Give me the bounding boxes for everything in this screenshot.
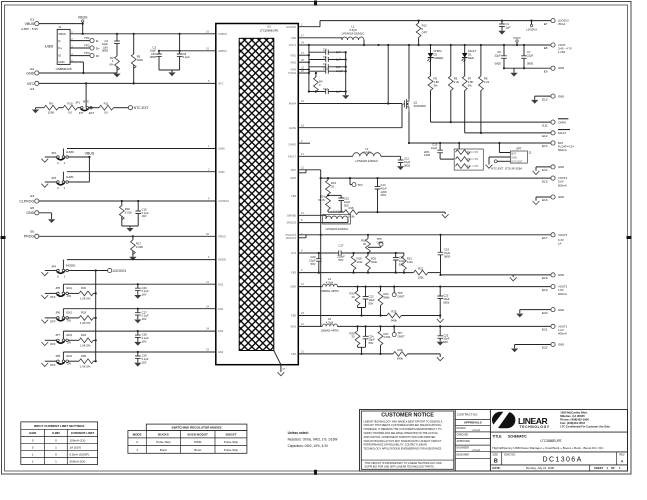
svg-text:D1: D1 [468, 52, 472, 56]
svg-text:4.7µH: 4.7µH [326, 320, 333, 324]
svg-text:PVBUS: PVBUS [218, 32, 227, 36]
svg-text:E17: E17 [542, 236, 548, 240]
svg-text:C4: C4 [323, 48, 327, 52]
svg-text:EN2: EN2 [218, 307, 224, 311]
svg-text:OFF: OFF [50, 295, 56, 299]
svg-text:EXT: EXT [89, 111, 95, 115]
svg-text:DC1306A: DC1306A [543, 457, 583, 464]
svg-text:NTC-EXT: NTC-EXT [491, 166, 503, 170]
svg-text:1.8K: 1.8K [434, 80, 440, 84]
svg-text:SWAB3: SWAB3 [287, 213, 297, 217]
svg-text:LPS4018-222MLC: LPS4018-222MLC [355, 159, 378, 163]
svg-text:R23: R23 [349, 292, 355, 296]
svg-text:E16: E16 [542, 198, 548, 202]
svg-text:R22: R22 [418, 267, 424, 271]
svg-text:1A (10X): 1A (10X) [70, 445, 82, 449]
svg-text:PVIN4: PVIN4 [289, 71, 297, 75]
svg-text:5%: 5% [110, 62, 115, 66]
svg-text:ILIM1: ILIM1 [218, 170, 225, 174]
svg-text:R17: R17 [136, 242, 142, 246]
svg-text:GND: GND [558, 308, 564, 312]
svg-text:VIN2: VIN2 [290, 60, 296, 64]
svg-text:LPS4018-332MLC: LPS4018-332MLC [342, 32, 365, 36]
svg-text:Burst: Burst [160, 448, 167, 452]
svg-text:CLPROG: CLPROG [19, 199, 34, 203]
svg-text:VOUT: VOUT [513, 36, 521, 40]
svg-text:OFF: OFF [50, 320, 56, 324]
svg-text:R21: R21 [407, 257, 413, 261]
svg-text:L3 2.2µH: L3 2.2µH [331, 209, 342, 213]
svg-text:CLPROG: CLPROG [218, 199, 229, 203]
svg-text:GATE: GATE [289, 126, 296, 130]
svg-text:E22: E22 [542, 346, 548, 350]
svg-text:CHRG: CHRG [288, 142, 296, 146]
svg-text:FB2: FB2 [291, 314, 296, 318]
svg-text:L1: L1 [351, 25, 355, 29]
svg-text:C17: C17 [338, 244, 344, 248]
svg-text:Pulse Skip: Pulse Skip [224, 440, 239, 444]
svg-text:R05: R05 [81, 354, 87, 358]
svg-text:E4: E4 [30, 194, 34, 198]
svg-text:LTC3586EUFE: LTC3586EUFE [540, 439, 561, 443]
svg-text:EN1: EN1 [218, 282, 224, 286]
svg-text:20%: 20% [424, 150, 430, 154]
svg-text:LTC Confidential-For Customer: LTC Confidential-For Customer Use Only [560, 425, 610, 429]
svg-text:JP3: JP3 [51, 176, 56, 180]
svg-text:600mA: 600mA [558, 183, 567, 187]
svg-text:C16: C16 [142, 207, 148, 211]
svg-text:GND: GND [558, 66, 564, 70]
svg-text:VIN4: VIN4 [290, 68, 296, 72]
svg-text:DRAWN: DRAWN [457, 427, 466, 430]
svg-text:THIS CIRCUIT IS PROPRIETARY TO: THIS CIRCUIT IS PROPRIETARY TO LINEAR TE… [365, 461, 442, 465]
svg-text:E12: E12 [542, 134, 548, 138]
svg-text:C11: C11 [323, 67, 328, 71]
svg-text:BAT: BAT [558, 141, 563, 145]
svg-text:BOOST: BOOST [226, 433, 237, 437]
svg-text:22µF: 22µF [494, 53, 501, 57]
svg-text:SW1: SW1 [290, 325, 296, 329]
svg-text:0805: 0805 [495, 62, 502, 66]
svg-text:L4: L4 [328, 277, 332, 281]
svg-text:220pF: 220pF [337, 255, 345, 259]
svg-text:1.2V: 1.2V [558, 328, 564, 332]
svg-text:1206: 1206 [381, 190, 388, 194]
svg-text:ILIM1: ILIM1 [66, 175, 74, 179]
svg-text:R03: R03 [81, 311, 87, 315]
svg-text:DIR: DIR [292, 36, 297, 40]
svg-text:EN3: EN3 [218, 329, 224, 333]
svg-text:R16: R16 [125, 207, 131, 211]
svg-text:E3: E3 [30, 87, 34, 91]
svg-text:OMIT: OMIT [377, 241, 384, 245]
svg-text:1.0K 5%: 1.0K 5% [80, 364, 91, 368]
svg-text:D+: D+ [96, 46, 100, 50]
svg-text:APPROVED: APPROVED [457, 440, 471, 443]
svg-text:3.3µH: 3.3µH [349, 28, 356, 32]
svg-text:PROG: PROG [24, 235, 35, 239]
svg-text:324k: 324k [371, 260, 378, 264]
svg-text:1008AS-4R7M: 1008AS-4R7M [320, 289, 339, 293]
svg-text:Q1: Q1 [414, 101, 418, 105]
svg-text:3.01K: 3.01K [125, 210, 132, 214]
svg-text:R29 1 5%: R29 1 5% [467, 150, 479, 154]
svg-text:E19: E19 [542, 288, 548, 292]
svg-text:R14: R14 [320, 195, 326, 199]
svg-text:BAT: BAT [291, 168, 296, 172]
svg-text:2.2k: 2.2k [484, 80, 490, 84]
svg-text:VBUS: VBUS [25, 22, 35, 26]
svg-text:VOUT: VOUT [289, 43, 297, 47]
svg-text:USBMINI-B: USBMINI-B [56, 67, 72, 71]
svg-text:100K: 100K [137, 58, 144, 62]
svg-text:400mA: 400mA [558, 292, 567, 296]
svg-text:E6: E6 [30, 229, 34, 233]
svg-text:CONTRACT NO: CONTRACT NO [457, 413, 478, 417]
svg-text:CIRCUIT BOARD LAYOUT MAY SIGNI: CIRCUIT BOARD LAYOUT MAY SIGNIFICANTLY A… [364, 439, 442, 443]
svg-text:EN1: EN1 [67, 286, 73, 290]
svg-text:Unless noted:: Unless noted: [288, 431, 309, 435]
svg-text:DESIGNER: DESIGNER [457, 453, 470, 456]
svg-text:E8: E8 [544, 46, 548, 50]
svg-text:E5: E5 [30, 206, 34, 210]
svg-text:3.4V - 4.7V: 3.4V - 4.7V [558, 47, 572, 51]
svg-text:NTC: NTC [83, 100, 90, 104]
svg-text:2.05k: 2.05k [384, 335, 391, 339]
svg-text:Resistors: Ohms, 0402, 1%, 1/1: Resistors: Ohms, 0402, 1%, 1/16W [288, 437, 338, 441]
svg-text:TECHNOLOGY APPLICATIONS ENGINE: TECHNOLOGY APPLICATIONS ENGINEERING FOR … [364, 447, 443, 451]
svg-text:FAULT: FAULT [468, 49, 477, 53]
svg-text:BUCK-BOOST: BUCK-BOOST [188, 433, 208, 437]
svg-text:GND: GND [558, 165, 564, 169]
svg-text:4.35V - 5.5V: 4.35V - 5.5V [21, 27, 39, 31]
svg-text:1.25A: 1.25A [558, 50, 565, 54]
svg-text:R26: R26 [349, 331, 355, 335]
svg-text:MODE: MODE [66, 264, 75, 268]
svg-text:TP7: TP7 [398, 331, 404, 335]
svg-text:10µF: 10µF [443, 297, 450, 301]
svg-text:20: 20 [363, 242, 367, 246]
svg-text:ON: ON [67, 294, 71, 298]
svg-text:10µF: 10µF [404, 160, 411, 164]
svg-text:1.0K 5%: 1.0K 5% [80, 321, 91, 325]
svg-text:CIRCUIT THAT MEETS CUSTOMER-SU: CIRCUIT THAT MEETS CUSTOMER-SUPPLIED SPE… [364, 423, 442, 427]
svg-text:EN4: EN4 [67, 354, 73, 358]
svg-text:FAULT: FAULT [558, 131, 567, 135]
svg-text:JP8: JP8 [55, 354, 60, 358]
svg-text:SUPPLIED FOR USE WITH LINEAR T: SUPPLIED FOR USE WITH LINEAR TECHNOLOGY … [365, 465, 435, 469]
svg-text:50V: 50V [369, 341, 374, 345]
svg-text:E15: E15 [542, 179, 548, 183]
svg-text:ILIM0: ILIM0 [218, 147, 225, 151]
svg-text:R11: R11 [104, 101, 109, 105]
svg-text:EN3: EN3 [67, 333, 73, 337]
svg-text:0603: 0603 [404, 163, 411, 167]
svg-text:5%: 5% [434, 83, 439, 87]
svg-text:0.0: 0.0 [68, 111, 72, 115]
svg-text:20: 20 [331, 184, 335, 188]
svg-text:LDO3V3: LDO3V3 [286, 25, 297, 29]
svg-text:10µF: 10µF [431, 146, 438, 150]
svg-text:MODE: MODE [133, 433, 142, 437]
svg-text:10.9k: 10.9k [348, 215, 355, 219]
svg-text:R13: R13 [331, 181, 337, 185]
svg-text:CHECKED: CHECKED [457, 434, 469, 437]
svg-text:BAT: BAT [511, 151, 516, 155]
svg-text:0.0: 0.0 [104, 111, 108, 115]
svg-text:SW2: SW2 [290, 285, 296, 289]
svg-text:INT: INT [79, 111, 84, 115]
svg-text:PROG: PROG [218, 234, 226, 238]
svg-text:APPLICATION. COMPONENT SUBSTIT: APPLICATION. COMPONENT SUBSTITUTION AND … [364, 435, 436, 439]
svg-text:GND: GND [558, 94, 564, 98]
svg-text:GND: GND [558, 343, 564, 347]
svg-text:TP6: TP6 [398, 291, 404, 295]
svg-text:ID: ID [58, 54, 61, 58]
svg-text:OFF: OFF [50, 342, 56, 346]
svg-text:500mA (5X): 500mA (5X) [70, 459, 86, 463]
svg-text:20%: 20% [381, 193, 387, 197]
svg-text:ON: ON [67, 362, 71, 366]
svg-text:C6: C6 [497, 50, 501, 54]
svg-text:TP3: TP3 [84, 51, 90, 55]
svg-text:E20: E20 [542, 311, 548, 315]
svg-text:10µF: 10µF [369, 298, 376, 302]
svg-text:E18: E18 [542, 276, 548, 280]
svg-text:R7: R7 [468, 77, 472, 81]
svg-text:NTC-EXT: NTC-EXT [134, 106, 150, 110]
svg-text:50V: 50V [443, 340, 448, 344]
svg-text:16V: 16V [142, 360, 147, 364]
svg-text:OPT: OPT [422, 30, 428, 34]
svg-text:806k: 806k [384, 295, 391, 299]
svg-text:1A: 1A [558, 241, 562, 245]
svg-text:LDO3V3: LDO3V3 [558, 19, 569, 23]
svg-text:FB1: FB1 [291, 352, 296, 356]
svg-text:E1: E1 [30, 18, 34, 22]
svg-text:DATE:: DATE: [492, 466, 500, 470]
svg-text:J1: J1 [58, 25, 61, 29]
svg-text:MODE: MODE [218, 258, 226, 262]
svg-text:Si2333DS: Si2333DS [414, 104, 427, 108]
svg-text:TP4: TP4 [358, 183, 364, 187]
svg-text:2.2k: 2.2k [454, 80, 460, 84]
svg-text:USB: USB [45, 44, 54, 49]
svg-text:649k: 649k [397, 357, 404, 361]
svg-text:D-: D- [96, 39, 99, 43]
svg-text:NTC: NTC [27, 82, 35, 86]
svg-text:R20: R20 [371, 257, 377, 261]
svg-text:R6: R6 [454, 77, 458, 81]
svg-text:20: 20 [351, 335, 355, 339]
svg-text:C23: C23 [443, 294, 449, 298]
svg-text:R24: R24 [384, 292, 390, 296]
svg-text:1008AS-4R7M: 1008AS-4R7M [320, 329, 339, 333]
svg-text:AVIN4: AVIN4 [289, 102, 297, 106]
svg-text:ENGINEER: ENGINEER [457, 447, 470, 450]
svg-text:J2: J2 [528, 151, 531, 155]
svg-text:2.00K: 2.00K [136, 245, 143, 249]
svg-text:LINEAR TECHNOLOGY HAS MADE A B: LINEAR TECHNOLOGY HAS MADE A BEST EFFORT… [364, 419, 443, 423]
svg-text:0.1µF: 0.1µF [183, 55, 190, 59]
svg-text:0603: 0603 [443, 300, 450, 304]
svg-text:5.0V: 5.0V [558, 180, 564, 184]
svg-text:D-: D- [58, 39, 61, 43]
svg-text:C25: C25 [443, 333, 449, 337]
svg-text:ILIM1: ILIM1 [29, 431, 37, 435]
svg-text:A: A [621, 459, 624, 464]
svg-text:DWG NO.: DWG NO. [504, 453, 516, 457]
svg-text:C26: C26 [142, 286, 148, 290]
svg-text:25mA: 25mA [558, 22, 565, 26]
svg-text:TITLE:: TITLE: [492, 435, 502, 439]
svg-text:VBUS: VBUS [78, 16, 88, 20]
svg-text:0805: 0805 [102, 49, 109, 53]
svg-text:50V: 50V [339, 258, 344, 262]
svg-text:400mA: 400mA [558, 332, 567, 336]
svg-text:ILIM0: ILIM0 [66, 150, 74, 154]
svg-text:Fax: (408)434-0507: Fax: (408)434-0507 [560, 421, 585, 425]
svg-text:JP7: JP7 [55, 333, 60, 337]
svg-text:OF: OF [611, 466, 615, 470]
svg-text:100K: 100K [48, 111, 55, 115]
svg-text:U1: U1 [267, 25, 271, 29]
svg-text:L5: L5 [328, 317, 332, 321]
svg-text:0.1µF: 0.1µF [142, 336, 149, 340]
svg-text:EN4: EN4 [218, 350, 224, 354]
svg-text:E10: E10 [542, 97, 548, 101]
svg-text:0805: 0805 [444, 254, 451, 258]
svg-text:VBUS: VBUS [58, 32, 66, 36]
svg-text:105k: 105k [418, 275, 425, 279]
svg-text:C14: C14 [381, 183, 387, 187]
svg-text:CUSTOMER NOTICE: CUSTOMER NOTICE [381, 413, 434, 419]
svg-text:0805: 0805 [527, 62, 534, 66]
svg-text:56.7k: 56.7k [318, 198, 325, 202]
svg-text:CHRG: CHRG [434, 49, 442, 53]
svg-text:TP1: TP1 [84, 36, 90, 40]
svg-text:47µF: 47µF [381, 186, 388, 190]
svg-text:GND: GND [58, 60, 64, 64]
svg-text:R9: R9 [49, 101, 53, 105]
svg-text:16V: 16V [142, 340, 147, 344]
svg-text:OFF: OFF [50, 363, 56, 367]
svg-text:10pF: 10pF [369, 338, 376, 342]
svg-text:R31 1 5%: R31 1 5% [467, 164, 479, 168]
svg-text:GND: GND [511, 155, 517, 159]
svg-text:16V: 16V [142, 317, 147, 321]
svg-text:Capacitors: 0402, 10%, 6.3V: Capacitors: 0402, 10%, 6.3V [288, 444, 329, 448]
svg-text:C1: C1 [506, 22, 510, 26]
svg-text:1.8K: 1.8K [468, 80, 474, 84]
svg-text:C12: C12 [404, 157, 410, 161]
svg-text:R5: R5 [434, 77, 438, 81]
svg-text:940k: 940k [391, 318, 398, 322]
svg-text:16V: 16V [142, 214, 147, 218]
svg-text:JP6: JP6 [55, 311, 60, 315]
svg-text:PWM: PWM [194, 440, 202, 444]
svg-text:SCHEMATIC: SCHEMATIC [508, 435, 527, 439]
svg-text:C22: C22 [369, 295, 375, 299]
svg-text:HOWEVER, IT REMAINS THE CUSTOM: HOWEVER, IT REMAINS THE CUSTOMER'S RESPO… [364, 427, 442, 431]
svg-text:C29: C29 [142, 354, 148, 358]
svg-text:R18: R18 [361, 239, 367, 243]
svg-text:GREEN: GREEN [434, 56, 444, 60]
svg-text:VOUT2: VOUT2 [558, 285, 568, 289]
svg-text:22µF: 22µF [527, 53, 534, 57]
svg-text:E13: E13 [542, 144, 548, 148]
svg-text:VIN1: VIN1 [290, 53, 296, 57]
svg-text:22µF: 22µF [444, 251, 451, 255]
svg-text:SHEET: SHEET [594, 466, 604, 470]
svg-text:ET3-3P-205A: ET3-3P-205A [505, 166, 522, 170]
svg-text:TP5: TP5 [377, 237, 383, 241]
svg-text:ON: ON [67, 318, 71, 322]
svg-text:Burst: Burst [194, 448, 201, 452]
svg-text:VOUT: VOUT [558, 43, 566, 47]
svg-text:R28: R28 [397, 348, 403, 352]
svg-text:4.7µH: 4.7µH [326, 281, 333, 285]
svg-text:1.8V: 1.8V [558, 288, 564, 292]
svg-text:SW4: SW4 [290, 176, 296, 180]
svg-text:LPS4018-222MLC: LPS4018-222MLC [326, 227, 349, 231]
svg-text:C20: C20 [310, 255, 316, 259]
svg-text:R10: R10 [67, 101, 73, 105]
svg-text:100mA (1X): 100mA (1X) [70, 439, 86, 443]
svg-text:50V: 50V [311, 262, 316, 266]
svg-text:C10: C10 [323, 87, 329, 91]
svg-text:R19: R19 [357, 257, 363, 261]
svg-text:J.Cruz: J.Cruz [472, 448, 481, 452]
svg-text:FLOAT=4.2V: FLOAT=4.2V [558, 145, 574, 149]
svg-text:JP4: JP4 [51, 264, 56, 268]
svg-text:R3: R3 [137, 55, 141, 59]
svg-text:High Efficiency USB Power Mana: High Efficiency USB Power Manager + Dual… [492, 446, 604, 450]
svg-text:VBUS: VBUS [85, 151, 95, 155]
svg-text:JP2: JP2 [51, 151, 56, 155]
svg-text:CURRENT LIMIT: CURRENT LIMIT [71, 431, 94, 435]
svg-text:C24: C24 [369, 334, 375, 338]
svg-text:VOUT1: VOUT1 [558, 324, 568, 328]
svg-text:C19: C19 [444, 248, 450, 252]
svg-text:1.0K 5%: 1.0K 5% [80, 344, 91, 348]
svg-text:SIZE: SIZE [492, 453, 498, 457]
svg-text:E14: E14 [542, 168, 548, 172]
svg-text:EN2: EN2 [67, 311, 73, 315]
svg-text:50V: 50V [369, 301, 374, 305]
svg-text:R25: R25 [391, 310, 397, 314]
svg-text:RED: RED [468, 56, 474, 60]
svg-text:AVBUS: AVBUS [218, 49, 227, 53]
svg-text:FAULT: FAULT [288, 154, 296, 158]
svg-text:1µF: 1µF [506, 25, 511, 29]
svg-text:NTC-EXT: NTC-EXT [511, 160, 523, 164]
svg-text:AVOUT3: AVOUT3 [286, 236, 297, 240]
svg-text:1206: 1206 [424, 153, 431, 157]
svg-text:1.0K 5%: 1.0K 5% [80, 297, 91, 301]
svg-text:2.2µH: 2.2µH [363, 150, 370, 154]
svg-text:R15: R15 [348, 206, 354, 210]
svg-text:Monday, July 21, 2008: Monday, July 21, 2008 [526, 466, 554, 470]
svg-text:SWCD3: SWCD3 [287, 221, 297, 225]
svg-text:C28: C28 [142, 333, 148, 337]
svg-text:R4: R4 [319, 80, 323, 84]
svg-text:0.1µF: 0.1µF [142, 314, 149, 318]
svg-text:R12: R12 [422, 24, 428, 28]
svg-text:C15: C15 [344, 197, 350, 201]
svg-text:R27: R27 [384, 332, 390, 336]
svg-text:10pF: 10pF [443, 337, 450, 341]
